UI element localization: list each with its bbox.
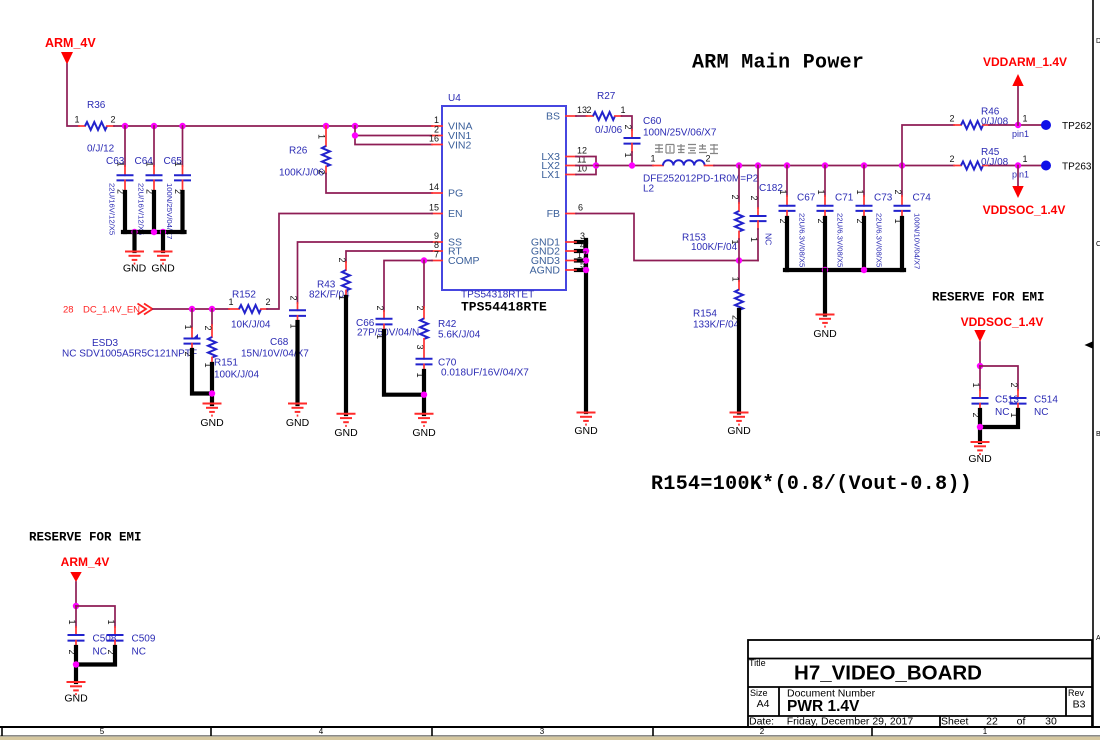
pin 11 LX2 [566, 165, 576, 167]
svg-text:1: 1 [1022, 114, 1027, 124]
svg-text:0/J/12: 0/J/12 [87, 144, 115, 155]
svg-text:C514: C514 [1034, 395, 1058, 406]
node junction [160, 229, 166, 235]
svg-text:2: 2 [288, 296, 298, 301]
svg-text:4: 4 [319, 727, 324, 736]
zone tick [871, 727, 873, 736]
wire ESD3 to gnd bar [192, 350, 212, 394]
node junction [209, 390, 215, 396]
node junction [629, 162, 635, 168]
note 电感封装变更 (CJK note drawn as glyphs) [655, 144, 718, 154]
zone tick [652, 727, 654, 736]
node junction [755, 162, 761, 168]
svg-text:1: 1 [74, 115, 79, 125]
svg-text:22U/6.3V/08/X5: 22U/6.3V/08/X5 [798, 213, 807, 267]
svg-text:22U/16V/12/X5: 22U/16V/12/X5 [108, 183, 117, 235]
svg-text:DFE252012PD-1R0M=P2: DFE252012PD-1R0M=P2 [643, 174, 759, 185]
BIGTEXT [651, 52, 972, 497]
svg-text:1: 1 [144, 162, 154, 167]
svg-text:ARM_4V: ARM_4V [45, 36, 96, 50]
wire IC ground bus [576, 240, 586, 244]
wire R152 to EN [267, 214, 432, 310]
node junction [593, 162, 599, 168]
ground [577, 413, 596, 425]
svg-text:1: 1 [173, 162, 183, 167]
node junction [189, 306, 195, 312]
bottom zone band bottom line [0, 735, 1100, 737]
svg-text:1: 1 [67, 620, 77, 625]
svg-text:NC: NC [1034, 407, 1048, 418]
svg-text:2: 2 [316, 170, 326, 175]
pin 1 VINA [432, 125, 442, 127]
svg-text:NC: NC [93, 647, 107, 658]
bottom zone band top line [0, 726, 1100, 728]
svg-text:C509: C509 [132, 634, 156, 645]
svg-text:14: 14 [429, 182, 439, 192]
node junction [899, 162, 905, 168]
svg-text:COMP: COMP [448, 255, 480, 267]
svg-text:TPS54418RTE: TPS54418RTE [461, 300, 547, 315]
svg-text:1: 1 [855, 190, 865, 195]
svg-text:GND: GND [334, 427, 358, 439]
node junction [977, 424, 983, 430]
svg-text:15: 15 [429, 203, 439, 213]
TITLEBLOCK [748, 640, 1092, 728]
ground [288, 404, 307, 416]
svg-text:B3: B3 [1073, 699, 1086, 711]
svg-text:1: 1 [816, 190, 826, 195]
svg-text:5: 5 [580, 260, 585, 270]
svg-text:7: 7 [434, 250, 439, 260]
svg-text:pin1: pin1 [1012, 170, 1029, 180]
svg-text:C73: C73 [874, 193, 893, 204]
wire branch to C514 [980, 366, 1018, 390]
svg-text:1: 1 [620, 105, 625, 115]
svg-text:NC SDV1005A5R5C121NPTF: NC SDV1005A5R5C121NPTF [62, 349, 197, 360]
svg-text:ESD3: ESD3 [92, 338, 119, 349]
svg-text:GND: GND [727, 425, 751, 437]
node junction [323, 123, 329, 129]
svg-text:0.018UF/16V/04/X7: 0.018UF/16V/04/X7 [441, 368, 529, 379]
svg-text:Size: Size [750, 688, 768, 698]
wire R46 to TP262 [989, 124, 1041, 126]
test point TP262 [1041, 120, 1051, 130]
svg-text:AGND: AGND [530, 265, 561, 277]
zone tick [210, 727, 212, 736]
svg-text:2: 2 [1009, 383, 1019, 388]
svg-text:TP262: TP262 [1062, 121, 1092, 132]
svg-text:NC: NC [995, 407, 1009, 418]
svg-text:PWR 1.4V: PWR 1.4V [787, 698, 860, 715]
ground [203, 404, 222, 416]
svg-text:1: 1 [730, 277, 740, 282]
svg-text:D: D [1096, 38, 1100, 45]
svg-text:2: 2 [623, 125, 633, 130]
wire caps to ground [76, 647, 115, 665]
svg-text:2: 2 [586, 105, 591, 115]
svg-text:C60: C60 [643, 116, 662, 127]
node junction [583, 248, 589, 254]
OUTCAPS [749, 166, 931, 341]
svg-text:1: 1 [316, 134, 326, 139]
node junction [784, 162, 790, 168]
wire C60 to LX rail [631, 152, 633, 166]
svg-text:1: 1 [228, 297, 233, 307]
node junction [861, 162, 867, 168]
power flag VDDARM_1.4V [1017, 86, 1019, 125]
svg-text:VIN2: VIN2 [448, 140, 472, 152]
svg-text:GND: GND [123, 263, 147, 275]
svg-text:5.6K/J/04: 5.6K/J/04 [438, 330, 481, 341]
node junction [352, 132, 358, 138]
svg-text:2: 2 [760, 727, 765, 736]
svg-text:Rev: Rev [1068, 688, 1085, 698]
svg-text:5: 5 [100, 727, 105, 736]
zone tick [431, 727, 433, 736]
FB-NET [576, 166, 758, 438]
node junction [421, 392, 427, 398]
pin 10 LX1 [566, 174, 576, 176]
pin 12 LX3 [566, 156, 576, 158]
wire C70 to ground [422, 371, 426, 414]
svg-text:2: 2 [730, 195, 740, 200]
svg-text:2: 2 [415, 306, 425, 311]
svg-text:1: 1 [115, 162, 125, 167]
svg-text:R154=100K*(0.8/(Vout-0.8)): R154=100K*(0.8/(Vout-0.8)) [651, 473, 972, 496]
svg-text:Friday, December 29, 2017: Friday, December 29, 2017 [787, 716, 914, 728]
svg-text:R42: R42 [438, 319, 457, 330]
svg-text:pin1: pin1 [1012, 129, 1029, 139]
pin 16 VIN2 [432, 144, 442, 146]
wire COMP net [384, 261, 432, 312]
TP-NET [902, 55, 1092, 217]
wire to ground [132, 232, 136, 251]
wire R154 to ground [737, 310, 741, 413]
wire output cap ground bar [785, 268, 904, 272]
op-amp U4 body [442, 106, 566, 290]
title block outline [748, 640, 1092, 727]
svg-text:100N/10V/04/X7: 100N/10V/04/X7 [913, 213, 922, 269]
EMI-RIGHT [932, 291, 1058, 466]
ground [816, 315, 835, 327]
pin 14 PG [432, 192, 442, 194]
svg-text:NC: NC [764, 233, 774, 245]
svg-text:GND: GND [968, 453, 992, 465]
svg-text:of: of [1017, 716, 1026, 728]
node junction [1015, 122, 1021, 128]
wire VIN rail [114, 125, 432, 127]
svg-text:2: 2 [705, 154, 710, 164]
svg-text:GND: GND [412, 427, 436, 439]
node junction [583, 267, 589, 273]
svg-text:3: 3 [540, 727, 545, 736]
zone tick [1, 727, 3, 736]
wire caps to ground [980, 410, 1018, 427]
svg-text:R151: R151 [214, 358, 238, 369]
svg-text:1: 1 [434, 115, 439, 125]
wire gnd bus of C63-C65 [123, 192, 127, 232]
wire L2 to output rail [714, 165, 954, 167]
svg-text:TP263: TP263 [1062, 162, 1092, 173]
svg-text:ARM_4V: ARM_4V [61, 555, 110, 569]
svg-text:2: 2 [893, 190, 903, 195]
svg-text:C71: C71 [835, 193, 854, 204]
svg-text:EN: EN [448, 208, 463, 220]
svg-text:A4: A4 [757, 698, 770, 710]
LX-NET [576, 144, 954, 195]
svg-text:GND: GND [813, 328, 837, 340]
ground [125, 252, 144, 264]
node junction [822, 267, 828, 273]
svg-text:100N/25V/06/X7: 100N/25V/06/X7 [643, 128, 717, 139]
svg-text:2: 2 [749, 196, 759, 201]
NET-ARM4V [45, 36, 432, 275]
node junction [977, 363, 983, 369]
svg-text:H7_VIDEO_BOARD: H7_VIDEO_BOARD [794, 662, 982, 685]
EN-NET [62, 214, 529, 440]
svg-text:DC_1.4V_EN: DC_1.4V_EN [83, 305, 140, 316]
svg-text:22U/6.3V/08/X5: 22U/6.3V/08/X5 [836, 213, 845, 267]
wire R43 to ground [344, 297, 348, 414]
wire flag to caps [979, 342, 981, 366]
pin 2 VIN1 [432, 135, 442, 137]
svg-text:2: 2 [949, 114, 954, 124]
ground [730, 413, 749, 425]
svg-text:8: 8 [434, 240, 439, 250]
svg-text:2: 2 [203, 326, 213, 331]
svg-text:10K/J/04: 10K/J/04 [231, 320, 271, 331]
svg-text:2: 2 [110, 115, 115, 125]
page edge strip [0, 737, 1100, 740]
svg-text:VDDSOC_1.4V: VDDSOC_1.4V [961, 315, 1044, 329]
svg-text:1: 1 [106, 620, 116, 625]
node junction [179, 123, 185, 129]
node junction [209, 306, 215, 312]
svg-text:R36: R36 [87, 100, 106, 111]
pin 5 AGND [566, 269, 576, 271]
svg-text:1: 1 [971, 383, 981, 388]
svg-text:100K/J/04: 100K/J/04 [214, 370, 259, 381]
svg-text:LX1: LX1 [541, 169, 560, 181]
svg-text:2: 2 [949, 154, 954, 164]
wire flag to caps [75, 582, 77, 606]
node junction [861, 267, 867, 273]
ground [337, 414, 356, 426]
svg-text:A: A [1096, 635, 1100, 642]
node junction [73, 661, 79, 667]
ground [154, 252, 173, 264]
pin 9 SS [432, 241, 442, 243]
node junction [1015, 162, 1021, 168]
svg-text:VDDSOC_1.4V: VDDSOC_1.4V [983, 203, 1066, 217]
wire R45 to TP263 [989, 165, 1041, 167]
svg-text:22U/16V/12/X5: 22U/16V/12/X5 [137, 183, 146, 235]
wire LX pins loop [576, 157, 596, 175]
svg-text:R152: R152 [232, 290, 256, 301]
svg-text:6: 6 [578, 203, 583, 213]
node junction [822, 162, 828, 168]
svg-text:1: 1 [983, 727, 988, 736]
off-sheet arrow marker [1085, 341, 1094, 349]
wire R151 to ground [210, 364, 214, 404]
svg-text:28: 28 [63, 305, 74, 316]
pin 3 GND1 [566, 241, 576, 243]
pin 8 RT [432, 250, 442, 252]
svg-text:3: 3 [580, 231, 585, 241]
svg-text:R26: R26 [289, 146, 308, 157]
svg-text:1: 1 [183, 325, 193, 330]
svg-text:GND: GND [151, 263, 175, 275]
svg-text:ARM Main Power: ARM Main Power [692, 52, 864, 75]
svg-text:U4: U4 [448, 93, 461, 104]
svg-text:1: 1 [650, 154, 655, 164]
ground [415, 414, 434, 426]
wire to ground [161, 232, 165, 251]
node junction [736, 257, 742, 263]
svg-text:22U/6.3V/08/X5: 22U/6.3V/08/X5 [875, 213, 884, 267]
test point TP263 [1041, 161, 1051, 171]
pin 6 FB [566, 213, 576, 215]
wire FB pin to divider [576, 214, 758, 261]
svg-text:133K/F/04: 133K/F/04 [693, 320, 740, 331]
svg-text:Sheet: Sheet [941, 716, 969, 728]
node junction [352, 123, 358, 129]
wire riser to R46 row [902, 125, 954, 166]
svg-text:R27: R27 [597, 91, 616, 102]
svg-text:R154: R154 [693, 309, 717, 320]
svg-text:C68: C68 [270, 337, 289, 348]
node junction [73, 603, 79, 609]
power flag VDDSOC_1.4V [1017, 166, 1019, 187]
pin 7 COMP [432, 260, 442, 262]
svg-text:4: 4 [580, 241, 585, 251]
svg-text:2: 2 [265, 297, 270, 307]
svg-text:PG: PG [448, 188, 463, 200]
wire EN rail [153, 308, 229, 310]
svg-text:Title: Title [749, 658, 766, 668]
wire VIN1 VIN2 drop [355, 126, 432, 136]
svg-text:NC: NC [132, 647, 146, 658]
svg-text:2: 2 [375, 306, 385, 311]
node junction [421, 257, 427, 263]
pin 13 BS [566, 115, 576, 117]
wire ARM_4V vertical [67, 64, 79, 126]
svg-text:GND: GND [200, 417, 224, 429]
node junction [583, 257, 589, 263]
wire bar to ground [823, 270, 827, 315]
BS-NET [576, 91, 717, 166]
svg-text:VDDARM_1.4V: VDDARM_1.4V [983, 55, 1067, 69]
svg-text:C67: C67 [797, 193, 816, 204]
node junction [151, 123, 157, 129]
svg-text:27P/50V/04/N: 27P/50V/04/N [357, 328, 419, 339]
svg-text:1: 1 [778, 190, 788, 195]
node junction [131, 229, 137, 235]
pin 4 GND2 [566, 250, 576, 252]
ground [67, 682, 86, 694]
svg-text:B: B [1096, 431, 1100, 438]
wire R27 to C60 [622, 116, 633, 130]
svg-text:16: 16 [429, 134, 439, 144]
svg-text:RESERVE FOR EMI: RESERVE FOR EMI [932, 291, 1045, 305]
right border line [1092, 0, 1094, 727]
svg-text:0/J/06: 0/J/06 [595, 125, 623, 136]
svg-text:17: 17 [577, 250, 587, 260]
wire R26 to PG [326, 174, 432, 194]
wire branch to C509 [76, 606, 115, 627]
svg-text:GND: GND [64, 693, 88, 705]
svg-text:2: 2 [337, 258, 347, 263]
node junction [151, 229, 157, 235]
wire C66 to gnd bar [384, 331, 424, 395]
svg-text:GND: GND [574, 425, 598, 437]
ground [971, 442, 990, 454]
svg-text:FB: FB [547, 208, 560, 220]
svg-text:30: 30 [1045, 716, 1057, 728]
pin 17 GND3 [566, 260, 576, 262]
pin 15 EN [432, 213, 442, 215]
svg-text:22: 22 [986, 716, 998, 728]
svg-text:C74: C74 [913, 193, 932, 204]
svg-text:1: 1 [1022, 154, 1027, 164]
svg-text:GND: GND [286, 417, 310, 429]
IC-U4 [429, 93, 598, 437]
svg-text:RESERVE FOR EMI: RESERVE FOR EMI [29, 531, 142, 545]
svg-text:Date:: Date: [749, 716, 774, 728]
wire LX rail [596, 165, 653, 167]
EMI-LEFT [29, 531, 156, 705]
svg-text:BS: BS [546, 111, 560, 123]
node junction [736, 162, 742, 168]
wire C68 to ground [295, 322, 299, 404]
svg-text:C: C [1096, 241, 1100, 248]
node junction [122, 123, 128, 129]
svg-text:L2: L2 [643, 184, 655, 195]
